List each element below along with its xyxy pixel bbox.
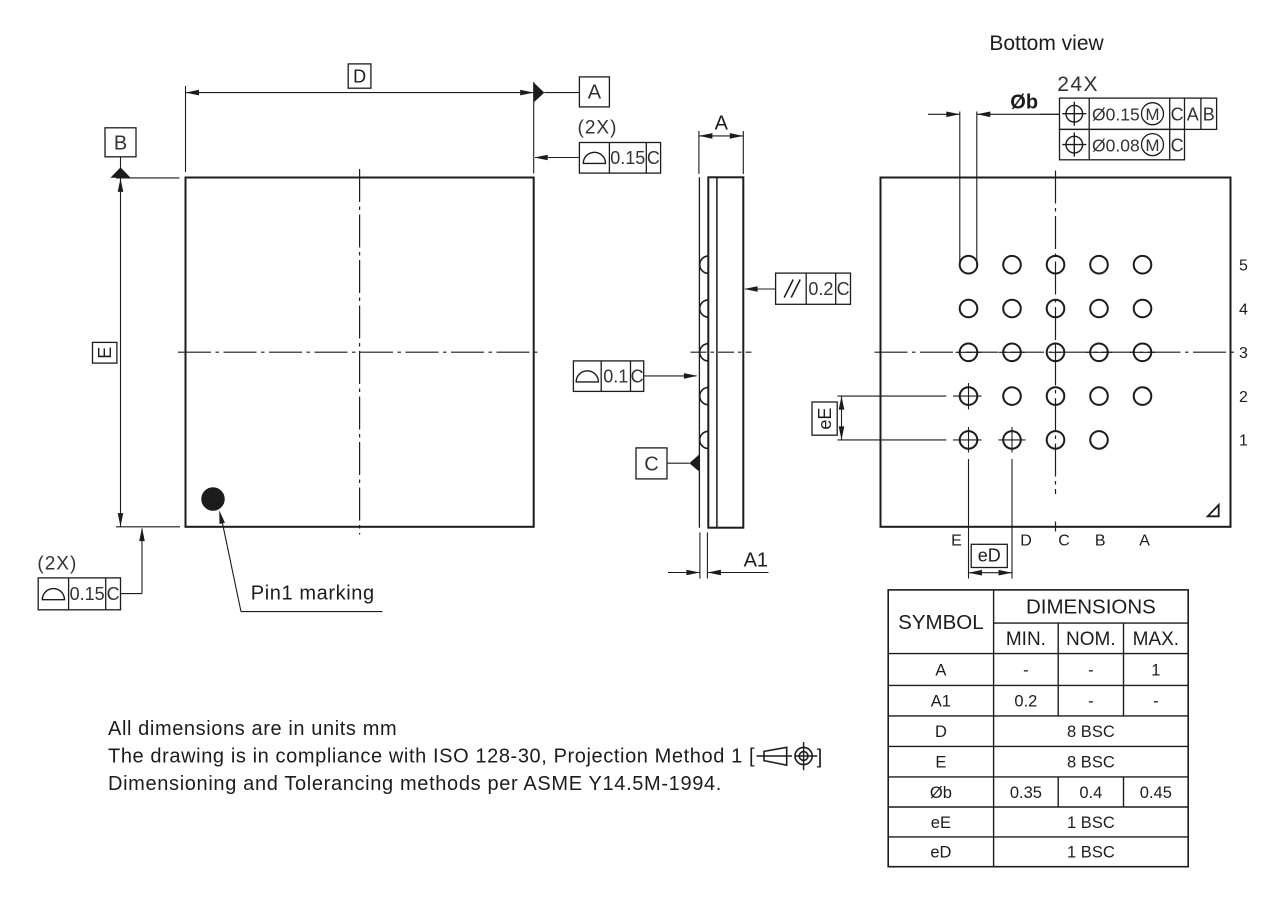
- svg-text:-: -: [1088, 661, 1094, 679]
- svg-text:24X: 24X: [1057, 73, 1099, 96]
- svg-text:C: C: [1058, 533, 1070, 550]
- svg-text:MAX.: MAX.: [1133, 629, 1179, 650]
- svg-text:Øb: Øb: [1010, 92, 1038, 114]
- svg-text:M: M: [1145, 105, 1159, 124]
- svg-text:A1: A1: [931, 692, 951, 710]
- svg-text:1: 1: [1239, 433, 1248, 450]
- svg-text:A: A: [1139, 533, 1150, 550]
- svg-text:1 BSC: 1 BSC: [1067, 814, 1115, 832]
- svg-text:4: 4: [1239, 301, 1248, 318]
- svg-text:eD: eD: [930, 844, 951, 862]
- svg-text:5: 5: [1239, 258, 1248, 275]
- svg-text:-: -: [1023, 661, 1029, 679]
- svg-text:-: -: [1153, 692, 1159, 710]
- svg-text:MIN.: MIN.: [1006, 629, 1046, 650]
- svg-text:Ø0.15: Ø0.15: [1092, 104, 1140, 124]
- svg-text:Øb: Øb: [930, 784, 952, 802]
- svg-text:A: A: [715, 113, 729, 135]
- svg-text:M: M: [1145, 136, 1159, 155]
- svg-text:D: D: [935, 723, 947, 741]
- svg-text:8 BSC: 8 BSC: [1067, 753, 1115, 771]
- svg-text:0.15: 0.15: [610, 148, 645, 168]
- svg-text:All dimensions are in units mm: All dimensions are in units mm: [108, 718, 397, 740]
- svg-text:eD: eD: [978, 546, 1001, 566]
- svg-text:E: E: [95, 347, 115, 359]
- svg-text:Dimensioning and Tolerancing m: Dimensioning and Tolerancing methods per…: [108, 773, 722, 795]
- svg-text:eE: eE: [815, 408, 835, 430]
- svg-text:0.15: 0.15: [70, 584, 105, 604]
- svg-text:Pin1 marking: Pin1 marking: [251, 583, 375, 605]
- svg-text:DIMENSIONS: DIMENSIONS: [1026, 596, 1156, 619]
- svg-text:A: A: [588, 82, 602, 104]
- svg-text:NOM.: NOM.: [1066, 629, 1116, 650]
- svg-text:E: E: [951, 533, 962, 550]
- svg-text:]: ]: [817, 747, 823, 769]
- svg-text:B: B: [1095, 533, 1106, 550]
- svg-text:C: C: [647, 148, 660, 168]
- svg-text:E: E: [935, 753, 946, 771]
- svg-text:Bottom view: Bottom view: [989, 32, 1104, 55]
- svg-text:C: C: [107, 584, 120, 604]
- svg-text:D: D: [1020, 533, 1032, 550]
- svg-text:-: -: [1088, 692, 1094, 710]
- svg-text:3: 3: [1239, 345, 1248, 362]
- svg-text:SYMBOL: SYMBOL: [898, 611, 983, 634]
- svg-text:0.2: 0.2: [1014, 692, 1037, 710]
- svg-text:B: B: [114, 133, 127, 155]
- svg-text:(2X): (2X): [37, 554, 77, 575]
- svg-text:C: C: [837, 279, 850, 299]
- svg-text:0.45: 0.45: [1140, 784, 1172, 802]
- svg-text:The drawing is in compliance w: The drawing is in compliance with ISO 12…: [108, 746, 755, 768]
- svg-text:0.35: 0.35: [1010, 784, 1042, 802]
- svg-text:A: A: [935, 661, 946, 679]
- svg-text:0.4: 0.4: [1079, 784, 1102, 802]
- svg-text:1: 1: [1151, 661, 1160, 679]
- svg-text:A1: A1: [744, 550, 768, 572]
- svg-text:C: C: [631, 366, 644, 386]
- svg-text:C: C: [1171, 104, 1184, 124]
- svg-text:(2X): (2X): [578, 118, 618, 139]
- svg-text:Ø0.08: Ø0.08: [1092, 135, 1140, 155]
- svg-text:2: 2: [1239, 389, 1248, 406]
- svg-text:8 BSC: 8 BSC: [1067, 723, 1115, 741]
- svg-text:A: A: [1187, 104, 1199, 124]
- svg-text:0.1: 0.1: [603, 366, 628, 386]
- svg-text:D: D: [353, 67, 366, 87]
- svg-text:0.2: 0.2: [808, 279, 833, 299]
- svg-text:eE: eE: [931, 814, 951, 832]
- svg-text:C: C: [644, 454, 658, 476]
- svg-text:1 BSC: 1 BSC: [1067, 844, 1115, 862]
- svg-text:C: C: [1171, 135, 1184, 155]
- svg-text:B: B: [1203, 104, 1215, 124]
